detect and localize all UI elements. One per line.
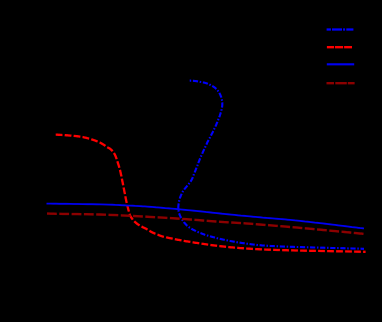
curve: blue dash-dot S-fold <box>178 81 364 249</box>
curve: bright red dashed sigmoid <box>56 135 366 252</box>
legend entry 3: blue solid sample <box>327 63 354 65</box>
legend entry 2: red dashed sample <box>327 46 352 48</box>
legend entry 1: blue dash-dot sample <box>327 28 354 30</box>
curve: blue solid declining line <box>47 204 365 229</box>
legend entry 4: dark red dashed sample <box>327 82 355 84</box>
curve: dark red dashed declining line <box>47 214 364 234</box>
